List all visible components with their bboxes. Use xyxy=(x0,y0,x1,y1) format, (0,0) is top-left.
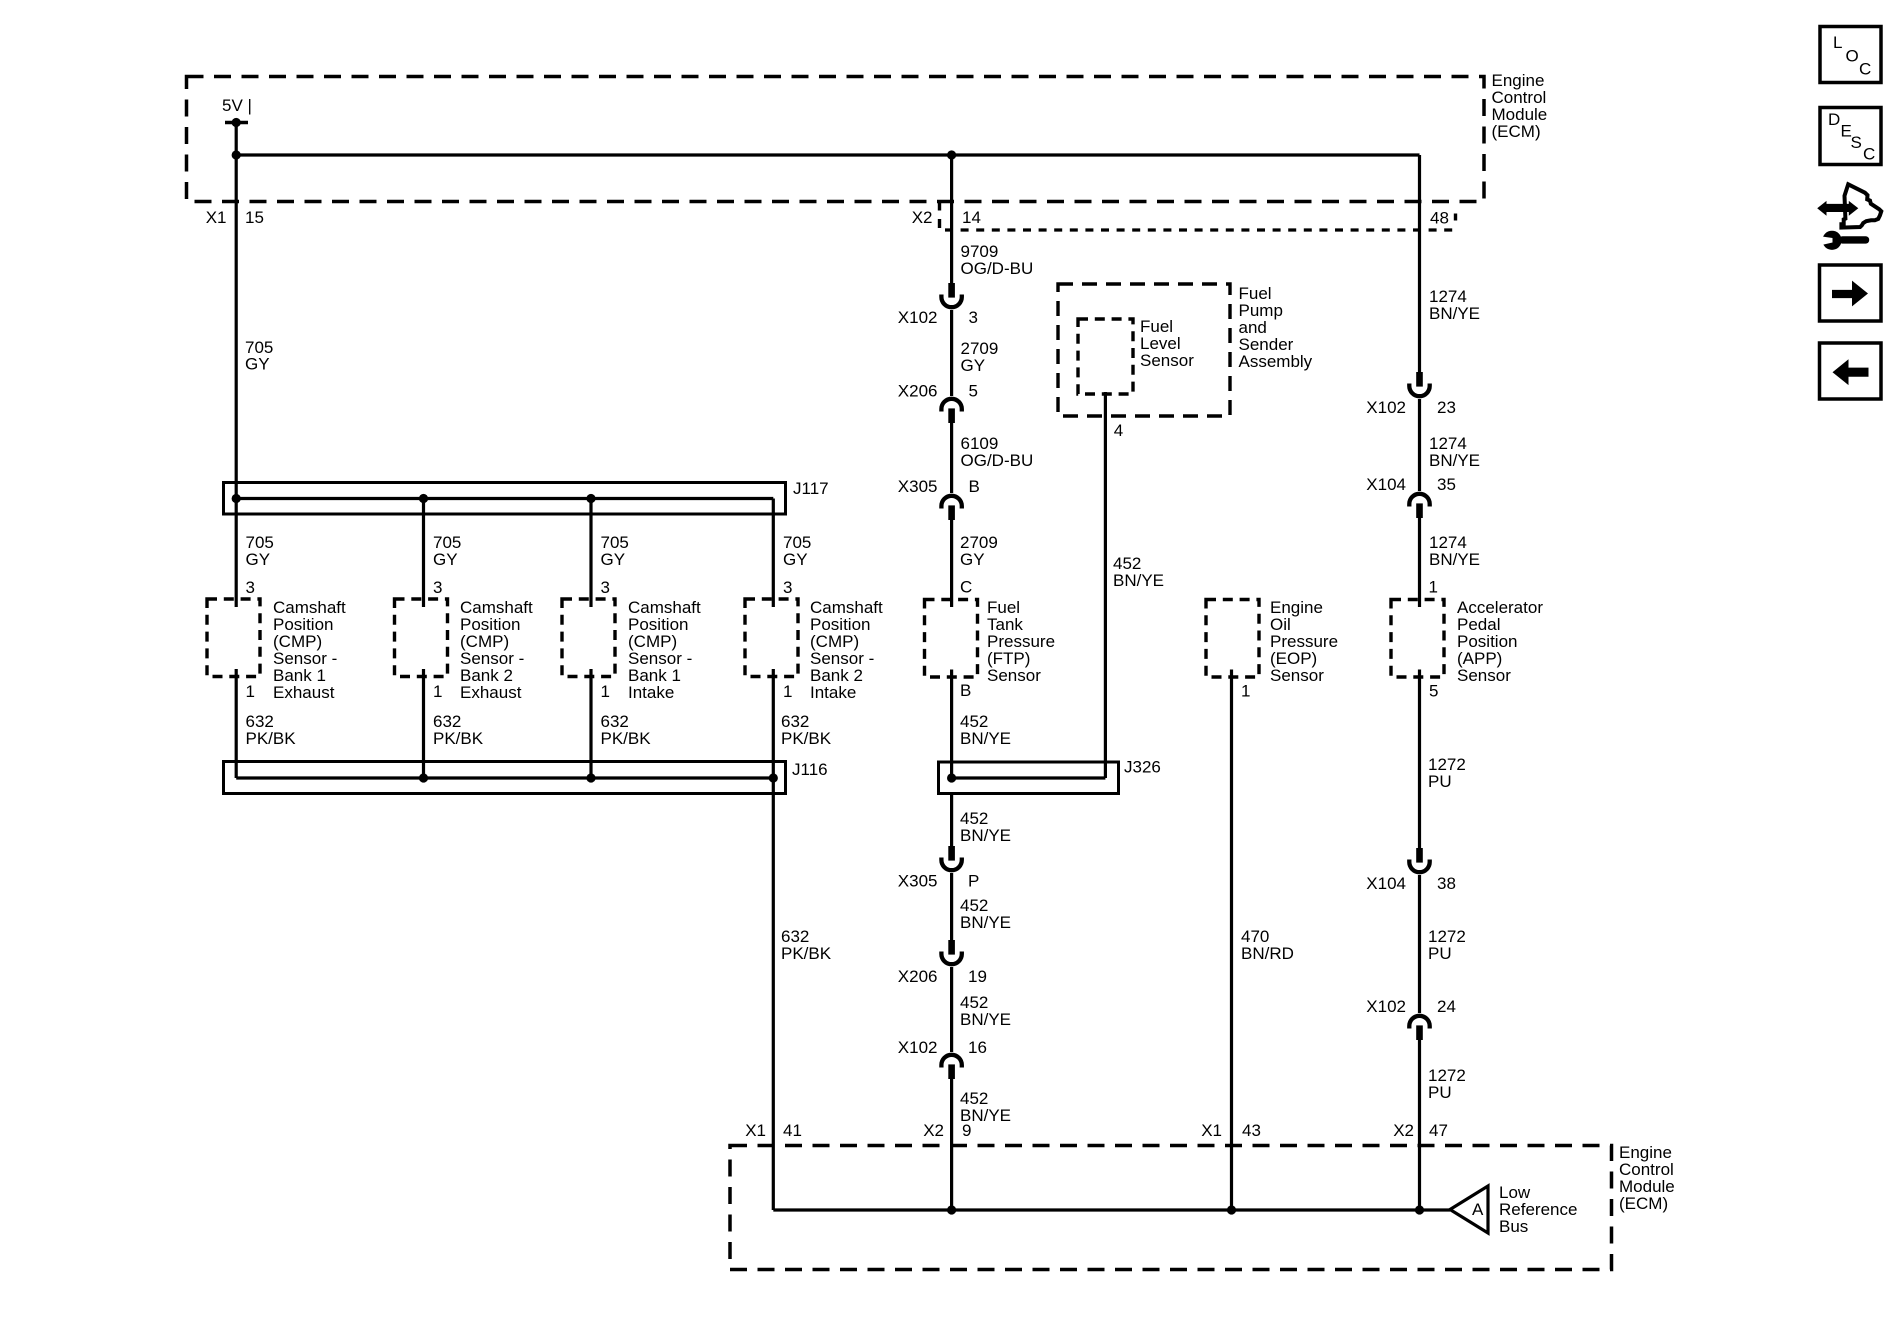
wire 705 GY J117 to CMP3 xyxy=(589,499,592,608)
wire 705 GY from ECM X1-15 to J117 xyxy=(235,155,238,499)
svg-text:X102: X102 xyxy=(898,1038,938,1057)
svg-text:X104: X104 xyxy=(1366,874,1406,893)
wire 1272 PU X102 to ECM X2-47 xyxy=(1418,1040,1421,1210)
label 5V xyxy=(222,96,252,115)
svg-text:Intake: Intake xyxy=(628,683,674,702)
svg-text:Sensor: Sensor xyxy=(987,666,1041,685)
svg-text:48: 48 xyxy=(1430,209,1449,228)
wire 705 GY J117 to CMP4 xyxy=(772,499,775,608)
svg-text:B: B xyxy=(960,681,971,700)
svg-text:5: 5 xyxy=(1429,682,1438,701)
svg-text:19: 19 xyxy=(968,967,987,986)
svg-text:3: 3 xyxy=(969,308,978,327)
pin 1 label APP xyxy=(1429,578,1438,597)
Fuel Pump and Sender Assembly dashed box xyxy=(1058,284,1230,416)
pin 1 label at x=433 xyxy=(433,682,442,701)
svg-text:Sensor: Sensor xyxy=(1140,351,1194,370)
wire 452 BN/YE X102 to ECM X2-9 xyxy=(950,1079,953,1210)
svg-text:47: 47 xyxy=(1429,1121,1448,1140)
junction dot bus at X1-15 wire xyxy=(232,150,241,159)
label Engine Control Module (ECM) top xyxy=(1492,71,1548,141)
power symbol 5V xyxy=(225,118,248,127)
svg-text:OG/D-BU: OG/D-BU xyxy=(961,259,1034,278)
wire 632 PK/BK J116 to ECM X1-41 xyxy=(772,778,775,1210)
label 1274 BN/YE (2) xyxy=(1429,434,1480,470)
label CMP2 xyxy=(460,598,533,702)
svg-text:X1: X1 xyxy=(1201,1121,1222,1140)
svg-text:Sensor: Sensor xyxy=(1457,666,1511,685)
svg-text:PK/BK: PK/BK xyxy=(433,729,484,748)
svg-text:3: 3 xyxy=(433,578,442,597)
label 632 PK/BK at x=781 xyxy=(781,712,832,748)
svg-text:PK/BK: PK/BK xyxy=(781,944,832,963)
svg-text:PK/BK: PK/BK xyxy=(246,729,297,748)
wire 632 PK/BK CMP3 to J116 xyxy=(589,669,592,778)
label J117 xyxy=(793,479,829,498)
wire 632 PK/BK CMP2 to J116 xyxy=(422,669,425,778)
label 1274 BN/YE (1) xyxy=(1429,287,1480,323)
svg-text:BN/YE: BN/YE xyxy=(1429,451,1480,470)
icon arrow left box xyxy=(1820,343,1882,399)
label 1274 BN/YE (3) xyxy=(1429,533,1480,569)
label 452 BN/YE (mid2) xyxy=(960,993,1011,1029)
icon connector repair - wrench xyxy=(1815,231,1869,250)
svg-text:1: 1 xyxy=(433,682,442,701)
svg-text:GY: GY xyxy=(433,550,458,569)
inline connector X102 pin 24 xyxy=(1409,1016,1429,1040)
svg-text:L: L xyxy=(1833,33,1842,52)
pin X1 15 (ECM top) xyxy=(206,208,264,227)
ECM (Engine Control Module) top dashed box xyxy=(187,77,1485,202)
pin 5 label APP xyxy=(1429,682,1438,701)
junction dot low ref bus at X2-47 xyxy=(1415,1205,1424,1214)
svg-text:X1: X1 xyxy=(206,208,227,227)
svg-text:BN/YE: BN/YE xyxy=(960,913,1011,932)
svg-text:X2: X2 xyxy=(912,208,933,227)
icon connector repair - part outline xyxy=(1841,184,1881,227)
wire 6109 OG/D-BU X206 to X305 xyxy=(950,423,953,493)
svg-text:Sensor: Sensor xyxy=(1270,666,1324,685)
label 632 PK/BK (long wire) xyxy=(781,927,832,963)
wire 1274 BN/YE X104 to APP sensor xyxy=(1418,518,1421,607)
splice pack J116 internal bus xyxy=(236,773,778,782)
ECM (Engine Control Module) bottom dashed box xyxy=(730,1146,1612,1270)
node A low reference bus triangle xyxy=(1450,1186,1488,1233)
junction dot bus at X2-14 wire xyxy=(947,150,956,159)
Fuel Level Sensor dashed box xyxy=(1078,319,1133,394)
svg-text:X206: X206 xyxy=(898,967,938,986)
label 452 BN/YE (fuel level) xyxy=(1113,554,1164,590)
svg-text:BN/YE: BN/YE xyxy=(1429,550,1480,569)
inline connector X305 pin P xyxy=(941,846,961,870)
inline connector X102 pin 3 xyxy=(941,283,961,307)
label X102 23 xyxy=(1366,398,1456,417)
wire 1272 PU X104 to X102 xyxy=(1418,875,1421,1013)
svg-text:O: O xyxy=(1846,47,1859,66)
icon LOC box xyxy=(1820,27,1881,83)
sensor CMP4 Camshaft Position Sensor - Bank 2 Intake dashed box xyxy=(745,599,798,677)
svg-text:GY: GY xyxy=(601,550,626,569)
svg-text:1: 1 xyxy=(246,682,255,701)
label 1272 PU (2) xyxy=(1428,927,1466,963)
svg-text:43: 43 xyxy=(1242,1121,1261,1140)
pin 1 label at x=783 xyxy=(783,682,792,701)
sensor CMP1 Camshaft Position Sensor - Bank 1 Exhaust dashed box xyxy=(207,599,260,677)
label X206 5 xyxy=(898,382,978,401)
inline connector X102 pin 23 xyxy=(1409,372,1429,396)
svg-text:GY: GY xyxy=(246,550,271,569)
label 705 GY at x=433 xyxy=(433,533,461,569)
pin 1 label at x=600.5 xyxy=(601,682,610,701)
wire 2709 GY X305 to FTP sensor xyxy=(950,520,953,607)
svg-text:1: 1 xyxy=(783,682,792,701)
svg-text:Assembly: Assembly xyxy=(1239,352,1313,371)
label X104 35 xyxy=(1366,475,1456,494)
svg-text:X305: X305 xyxy=(898,872,938,891)
sensor FTP Fuel Tank Pressure dashed box xyxy=(925,600,978,678)
svg-text:X102: X102 xyxy=(1366,997,1406,1016)
label 2709 GY (upper) xyxy=(961,339,999,375)
label Fuel Level Sensor xyxy=(1140,317,1194,370)
pin 3 label at x=245.5 xyxy=(246,578,255,597)
label 632 PK/BK at x=245.5 xyxy=(246,712,297,748)
svg-text:Exhaust: Exhaust xyxy=(460,683,522,702)
label 470 BN/RD xyxy=(1241,927,1294,963)
svg-text:BN/YE: BN/YE xyxy=(960,826,1011,845)
svg-text:X104: X104 xyxy=(1366,475,1406,494)
label CMP1 xyxy=(273,598,346,702)
label FTP sensor xyxy=(987,598,1055,685)
svg-text:Intake: Intake xyxy=(810,683,856,702)
label 452 BN/YE (above J326) xyxy=(960,712,1011,748)
splice J326 box xyxy=(939,762,1119,794)
wire 452 BN/YE J326 to X305 xyxy=(950,794,953,847)
X2 connector tick right xyxy=(1454,214,1457,221)
label 9709 OG/D-BU xyxy=(961,242,1034,278)
svg-text:BN/YE: BN/YE xyxy=(960,1010,1011,1029)
inline connector X206 pin 5 xyxy=(941,399,961,423)
label X102 3 xyxy=(898,308,978,327)
label 705 GY at x=600.5 xyxy=(601,533,629,569)
label X102 16 xyxy=(898,1038,987,1057)
pin X1 41 (ECM bottom) xyxy=(745,1121,802,1140)
label 452 BN/YE (below J326) xyxy=(960,809,1011,845)
inline connector X305 pin B xyxy=(941,496,961,520)
svg-text:D: D xyxy=(1828,110,1840,129)
svg-text:GY: GY xyxy=(960,550,985,569)
label Fuel Pump and Sender Assembly xyxy=(1239,284,1313,371)
svg-text:P: P xyxy=(968,872,979,891)
svg-text:41: 41 xyxy=(783,1121,802,1140)
wire 1274 BN/YE X102 to X104 xyxy=(1418,399,1421,491)
X2 connector dotted boundary xyxy=(945,228,1457,231)
svg-text:BN/YE: BN/YE xyxy=(1429,304,1480,323)
svg-text:X2: X2 xyxy=(923,1121,944,1140)
svg-text:OG/D-BU: OG/D-BU xyxy=(961,451,1034,470)
svg-text:GY: GY xyxy=(783,550,808,569)
pin X2 48 (ECM top) xyxy=(1430,209,1449,228)
svg-text:Exhaust: Exhaust xyxy=(273,683,335,702)
label X206 19 xyxy=(898,967,987,986)
svg-text:X305: X305 xyxy=(898,477,938,496)
label X104 38 xyxy=(1366,874,1456,893)
svg-text:X102: X102 xyxy=(1366,398,1406,417)
svg-text:PU: PU xyxy=(1428,772,1452,791)
svg-text:BN/RD: BN/RD xyxy=(1241,944,1294,963)
svg-text:PU: PU xyxy=(1428,1083,1452,1102)
junction dot low ref bus at X2-9 xyxy=(947,1205,956,1214)
svg-text:X102: X102 xyxy=(898,308,938,327)
svg-text:5: 5 xyxy=(969,382,978,401)
X2 connector tick left xyxy=(938,202,941,229)
svg-text:15: 15 xyxy=(245,208,264,227)
pin 1 label at x=245.5 xyxy=(246,682,255,701)
wire 705 GY J117 to CMP1 xyxy=(235,499,238,608)
label APP sensor xyxy=(1457,598,1543,685)
wire 452 BN/YE fuel level sensor to J326 xyxy=(1104,392,1107,778)
wire 452 BN/YE X305 to X206 xyxy=(950,873,953,940)
svg-text:(ECM): (ECM) xyxy=(1492,122,1541,141)
svg-text:3: 3 xyxy=(783,578,792,597)
splice pack J117 internal bus xyxy=(232,494,774,503)
svg-text:1: 1 xyxy=(601,682,610,701)
sensor CMP2 Camshaft Position Sensor - Bank 2 Exhaust dashed box xyxy=(395,599,448,677)
wire 5V to bus xyxy=(235,123,238,156)
svg-text:GY: GY xyxy=(245,355,270,374)
inline connector X206 pin 19 xyxy=(941,940,961,964)
pin 3 label at x=600.5 xyxy=(601,578,610,597)
label CMP3 xyxy=(628,598,701,702)
svg-text:X206: X206 xyxy=(898,382,938,401)
splice J326 internal bus xyxy=(947,773,1105,782)
inline connector X102 pin 16 xyxy=(941,1055,961,1079)
pin X2 47 (ECM bottom) xyxy=(1393,1121,1448,1140)
label J116 xyxy=(792,760,828,779)
sensor EOP Engine Oil Pressure dashed box xyxy=(1206,600,1259,678)
svg-text:5V |: 5V | xyxy=(222,96,252,115)
wire 1274 BN/YE ECM X2-48 to X102 xyxy=(1418,155,1421,372)
svg-text:PK/BK: PK/BK xyxy=(781,729,832,748)
label 2709 GY (lower) xyxy=(960,533,998,569)
svg-text:J116: J116 xyxy=(792,760,828,779)
wire 470 BN/RD EOP to ECM X1-43 xyxy=(1230,670,1233,1211)
label 452 BN/YE (mid1) xyxy=(960,896,1011,932)
label 1272 PU (3) xyxy=(1428,1066,1466,1102)
svg-text:GY: GY xyxy=(961,356,986,375)
sensor CMP3 Camshaft Position Sensor - Bank 1 Intake dashed box xyxy=(562,599,615,677)
wire 632 PK/BK CMP4 to J116 xyxy=(772,669,775,778)
svg-text:C: C xyxy=(960,578,972,597)
label J326 xyxy=(1124,758,1161,777)
wire 5V reference bus horizontal xyxy=(236,153,1419,156)
svg-text:C: C xyxy=(1863,145,1875,164)
svg-text:Bus: Bus xyxy=(1499,1217,1528,1236)
wire 632 PK/BK CMP1 to J116 xyxy=(235,669,238,778)
svg-text:35: 35 xyxy=(1437,475,1456,494)
label Low Reference Bus xyxy=(1499,1183,1577,1236)
svg-text:23: 23 xyxy=(1437,398,1456,417)
inline connector X104 pin 35 xyxy=(1409,494,1429,518)
pin 4 label fuel level sensor xyxy=(1114,421,1123,440)
label CMP4 xyxy=(810,598,883,702)
svg-text:38: 38 xyxy=(1437,874,1456,893)
label 705 GY at x=783 xyxy=(783,533,811,569)
svg-text:J326: J326 xyxy=(1124,758,1161,777)
svg-text:4: 4 xyxy=(1114,421,1123,440)
pin X2 14 (ECM top) xyxy=(912,208,981,227)
pin 3 label at x=433 xyxy=(433,578,442,597)
label EOP sensor xyxy=(1270,598,1338,685)
wire 452 BN/YE FTP to J326 xyxy=(950,670,953,779)
svg-text:3: 3 xyxy=(601,578,610,597)
svg-text:3: 3 xyxy=(246,578,255,597)
svg-text:PK/BK: PK/BK xyxy=(601,729,652,748)
icon connector repair - double arrow xyxy=(1817,201,1858,216)
wire 705 GY J117 to CMP2 xyxy=(422,499,425,608)
svg-text:PU: PU xyxy=(1428,944,1452,963)
svg-text:BN/YE: BN/YE xyxy=(960,729,1011,748)
junction dot low ref bus at X1-43 xyxy=(1227,1205,1236,1214)
pin 3 label at x=783 xyxy=(783,578,792,597)
label 632 PK/BK at x=433 xyxy=(433,712,484,748)
label X305 B xyxy=(898,477,980,496)
wire 452 BN/YE X206 to X102 xyxy=(950,967,953,1052)
svg-text:X2: X2 xyxy=(1393,1121,1414,1140)
svg-text:X1: X1 xyxy=(745,1121,766,1140)
label 6109 OG/D-BU xyxy=(961,434,1034,470)
label 452 BN/YE (bottom) xyxy=(960,1089,1011,1125)
svg-text:S: S xyxy=(1851,133,1862,152)
label 705 GY (upper) xyxy=(245,338,273,374)
svg-text:B: B xyxy=(969,477,980,496)
svg-text:9: 9 xyxy=(962,1121,971,1140)
splice pack J116 box xyxy=(224,762,786,794)
sensor APP Accelerator Pedal Position dashed box xyxy=(1391,600,1444,678)
label 1272 PU (1) xyxy=(1428,755,1466,791)
pin 1 label EOP xyxy=(1241,682,1250,701)
svg-text:24: 24 xyxy=(1437,997,1456,1016)
svg-text:14: 14 xyxy=(962,208,981,227)
icon arrow right box xyxy=(1820,265,1882,321)
pin X1 43 (ECM bottom) xyxy=(1201,1121,1261,1140)
pin B label FTP xyxy=(960,681,971,700)
pin C label FTP xyxy=(960,578,972,597)
wire 2709 GY X102 to X206 xyxy=(950,310,953,396)
svg-text:1: 1 xyxy=(1429,578,1438,597)
wire 9709 OG/D-BU ECM X2-14 to X102 xyxy=(950,155,953,283)
wire low reference bus horizontal xyxy=(773,1208,1450,1211)
splice pack J117 box xyxy=(224,483,786,515)
pin X2 9 (ECM bottom) xyxy=(923,1121,971,1140)
svg-text:J117: J117 xyxy=(793,479,829,498)
label Engine Control Module (ECM) bottom xyxy=(1619,1143,1675,1213)
svg-text:16: 16 xyxy=(968,1038,987,1057)
label 632 PK/BK at x=600.5 xyxy=(601,712,652,748)
icon DESC box xyxy=(1820,108,1881,165)
wire 1272 PU APP to X104 xyxy=(1418,670,1421,849)
label 705 GY at x=245.5 xyxy=(246,533,274,569)
svg-text:A: A xyxy=(1472,1200,1484,1219)
svg-text:1: 1 xyxy=(1241,682,1250,701)
inline connector X104 pin 38 xyxy=(1409,848,1429,872)
svg-text:C: C xyxy=(1859,60,1871,79)
label X305 P xyxy=(898,872,980,891)
svg-text:(ECM): (ECM) xyxy=(1619,1194,1668,1213)
label X102 24 xyxy=(1366,997,1456,1016)
svg-text:BN/YE: BN/YE xyxy=(1113,571,1164,590)
